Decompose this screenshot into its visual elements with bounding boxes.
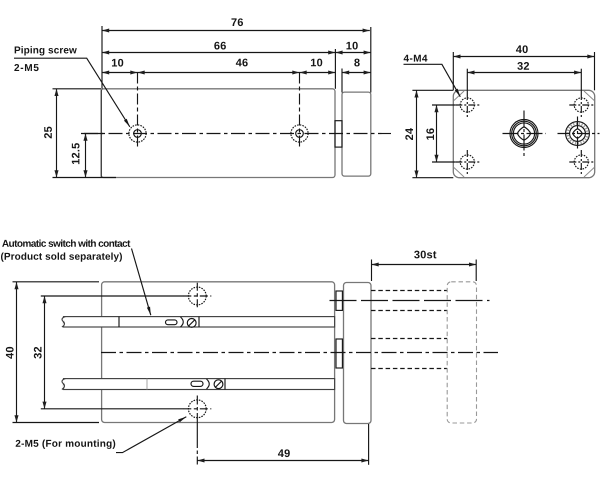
mounting hole top (2-M5) [183,283,211,310]
mounting hole bottom (2-M5) [183,396,211,465]
switch rail 1 [62,317,335,327]
mounting hole 4-M4 top-left [455,93,479,118]
dim 76 [102,18,371,92]
guide rod extended dashed bottom edge [371,310,447,312]
piston rod bushing tab [336,339,342,368]
front plate outline [342,92,371,176]
label Piping screw [15,46,77,55]
label 2-M5 [14,64,38,71]
dim 40 (end view) [453,45,594,90]
piping screw hole 2 [291,73,308,148]
auto switch 2 on rail [147,379,225,390]
dim 46 [138,59,300,73]
dim 16 [426,105,455,162]
main center line [101,352,498,354]
center piston rod hole [503,111,546,157]
dim 8 [342,59,371,93]
corner chamfer TL [454,91,464,101]
piston rod extended dashed bottom edge [371,368,447,370]
guide rod hole (right) [558,117,600,151]
cylinder body outline [101,89,335,178]
dim 25 [44,89,116,178]
label automatic switch line 2 [1,252,122,261]
leader to corner hole [404,64,461,97]
corner chamfer BR [584,168,594,178]
corner chamfer TR [584,91,594,101]
center line axis [84,133,391,135]
dim 10 (left, row 3) [102,59,138,73]
corner chamfer BL [454,168,464,178]
dim 30st [372,251,477,281]
guide rod extended dashed top edge [371,290,447,292]
dim 66 [102,42,335,89]
leader to piping hole [14,58,130,127]
front plate outline [344,283,372,424]
piston rod extended dashed top edge [371,338,447,340]
dim 40 (bottom view) [6,282,99,423]
dim 32 (end view) [467,62,581,93]
end plate outline [453,90,594,177]
leader to bottom mounting hole [116,417,186,453]
cylinder body outline [102,282,335,423]
rod boss tab [335,121,342,147]
label 2-M5 for mounting [16,440,116,449]
guide rod center line [330,300,490,302]
leader to switch [132,249,151,316]
guide rod bushing tab [336,291,342,310]
dim 12.5 [72,134,103,178]
label automatic switch line 1 [2,240,130,247]
mounting hole 4-M4 bottom-right [569,150,593,175]
mounting hole 4-M4 top-right [569,93,593,118]
dim 24 [405,90,453,177]
label 4-M4 [404,55,428,62]
piping screw hole 1 [129,73,146,148]
auto switch 1 on rail [119,317,199,328]
body left edge (darker) [100,90,102,178]
switch rail 2 [62,379,335,390]
dim 10 (row 3 right) [300,59,336,73]
dim 10 (right, row 2) [335,42,370,53]
mounting hole 4-M4 bottom-left [455,150,479,175]
dim 32 (bottom view) [34,296,184,409]
extended plate (stroke end) dashed [447,282,476,423]
dim 49 [197,424,368,465]
